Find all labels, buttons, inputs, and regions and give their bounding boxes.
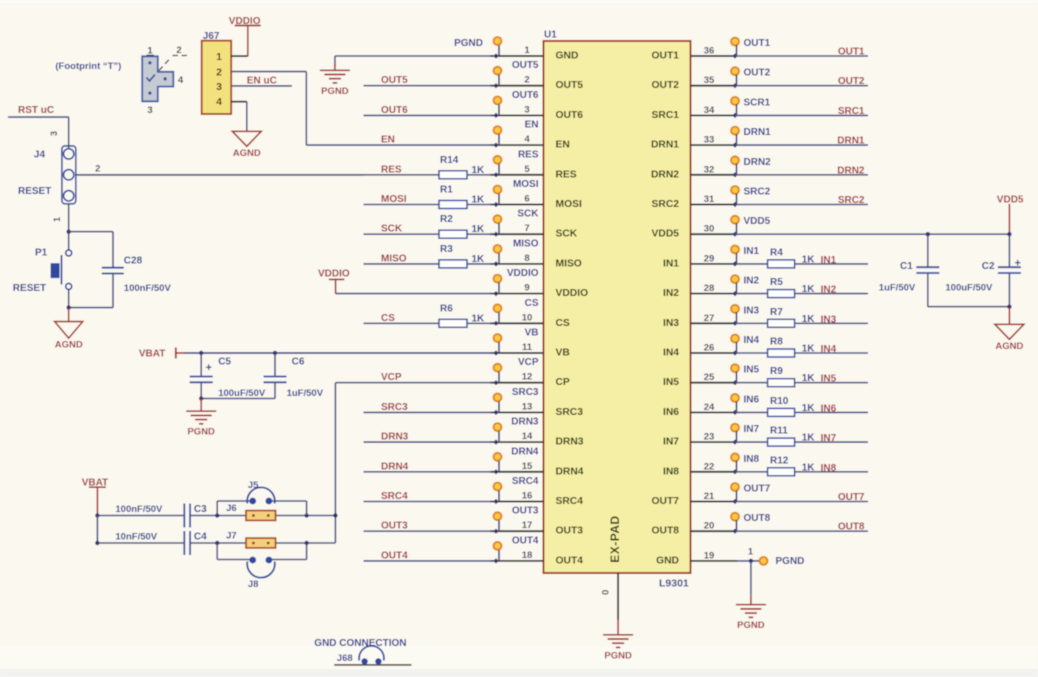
svg-text:DRN3: DRN3 [381,432,409,443]
svg-text:1K: 1K [802,284,816,295]
svg-text:SRC2: SRC2 [838,195,865,206]
svg-text:R10: R10 [770,396,789,407]
svg-text:1uF/50V: 1uF/50V [287,388,324,399]
svg-text:IN8: IN8 [821,463,837,474]
svg-text:VDD5: VDD5 [744,216,771,227]
svg-text:OUT7: OUT7 [652,496,680,507]
svg-text:IN8: IN8 [744,454,760,465]
svg-text:VDDIO: VDDIO [556,288,589,299]
svg-text:3: 3 [524,104,529,115]
svg-text:OUT1: OUT1 [744,38,771,49]
svg-text:PGND: PGND [737,620,765,631]
svg-text:1K: 1K [802,254,816,265]
svg-text:SCK: SCK [556,229,578,240]
svg-text:SRC2: SRC2 [744,187,771,198]
svg-text:AGND: AGND [233,148,261,159]
svg-text:CS: CS [556,318,570,329]
svg-text:IN4: IN4 [744,335,760,346]
svg-text:1K: 1K [802,403,816,414]
svg-text:J8: J8 [248,579,259,590]
svg-text:28: 28 [704,283,715,294]
svg-text:EN uC: EN uC [247,76,277,87]
svg-text:DRN3: DRN3 [556,437,584,448]
svg-text:PGND: PGND [321,86,349,97]
svg-text:+: + [206,362,212,374]
svg-text:21: 21 [704,491,715,502]
svg-text:100uF/50V: 100uF/50V [945,282,993,293]
svg-text:10: 10 [522,312,533,323]
svg-text:22: 22 [704,461,715,472]
svg-text:RES: RES [556,169,577,180]
svg-text:+: + [1015,258,1021,270]
svg-text:SRC4: SRC4 [381,491,408,502]
svg-text:1K: 1K [802,314,816,325]
svg-text:16: 16 [522,491,533,502]
svg-text:J6: J6 [226,503,237,514]
svg-text:DRN2: DRN2 [837,165,865,176]
svg-text:IN6: IN6 [663,407,679,418]
svg-text:L9301: L9301 [659,578,689,590]
svg-text:1K: 1K [472,165,486,176]
svg-text:5: 5 [524,164,530,175]
svg-text:R9: R9 [770,366,783,377]
svg-text:IN1: IN1 [744,246,760,257]
svg-text:CP: CP [556,377,570,388]
svg-text:SRC4: SRC4 [556,496,584,507]
svg-text:IN2: IN2 [663,288,679,299]
svg-text:RESET: RESET [13,283,46,294]
svg-text:1: 1 [216,51,222,63]
svg-text:DRN4: DRN4 [381,461,409,472]
svg-text:CS: CS [525,298,539,309]
svg-text:1K: 1K [802,344,816,355]
svg-text:SRC3: SRC3 [556,407,584,418]
svg-text:J5: J5 [248,480,259,491]
svg-text:IN4: IN4 [821,344,837,355]
svg-text:J7: J7 [226,531,237,542]
svg-text:R14: R14 [440,155,459,166]
svg-text:OUT8: OUT8 [652,526,680,537]
svg-text:C1: C1 [900,261,913,272]
svg-text:C3: C3 [194,504,207,515]
svg-text:IN6: IN6 [821,403,837,414]
svg-text:CS: CS [381,313,395,324]
svg-text:DRN1: DRN1 [837,136,865,147]
svg-text:OUT2: OUT2 [838,76,865,87]
svg-text:PGND: PGND [454,38,483,49]
svg-text:OUT5: OUT5 [512,60,539,71]
svg-text:7: 7 [524,223,529,234]
svg-text:25: 25 [704,372,715,383]
svg-text:DRN4: DRN4 [511,446,539,457]
svg-text:IN2: IN2 [821,285,837,296]
svg-text:15: 15 [522,461,533,472]
svg-text:24: 24 [704,402,715,413]
svg-text:U1: U1 [544,30,557,41]
svg-text:IN7: IN7 [744,424,760,435]
svg-text:SCR1: SCR1 [744,97,771,108]
svg-text:14: 14 [522,431,533,442]
svg-text:IN5: IN5 [663,377,679,388]
svg-text:GND CONNECTION: GND CONNECTION [314,638,406,649]
svg-text:R2: R2 [440,214,453,225]
svg-text:RES: RES [518,149,539,160]
svg-text:2: 2 [176,45,181,56]
svg-text:1: 1 [748,547,754,558]
svg-text:4: 4 [524,134,530,145]
svg-text:1K: 1K [802,462,816,473]
svg-text:VDDIO: VDDIO [318,269,350,280]
svg-text:33: 33 [704,135,715,146]
svg-text:OUT6: OUT6 [556,110,584,121]
svg-text:C28: C28 [124,256,143,267]
svg-text:MOSI: MOSI [556,199,582,210]
svg-text:OUT5: OUT5 [556,80,584,91]
svg-text:1K: 1K [472,224,486,235]
svg-text:EN: EN [381,135,395,146]
svg-text:OUT7: OUT7 [838,492,865,503]
svg-text:19: 19 [704,550,715,561]
svg-text:OUT3: OUT3 [556,526,584,537]
svg-text:1uF/50V: 1uF/50V [879,282,916,293]
svg-text:R7: R7 [770,307,783,318]
svg-text:OUT3: OUT3 [512,506,539,517]
svg-text:OUT4: OUT4 [556,555,584,566]
svg-text:C4: C4 [194,532,207,543]
svg-text:OUT1: OUT1 [838,47,865,58]
svg-text:VB: VB [556,348,570,359]
svg-text:18: 18 [522,550,533,561]
svg-text:27: 27 [704,313,715,324]
svg-text:OUT4: OUT4 [381,550,408,561]
svg-text:MOSI: MOSI [381,194,407,205]
svg-text:RESET: RESET [18,186,51,197]
svg-text:SRC3: SRC3 [512,387,539,398]
svg-text:4: 4 [178,75,184,86]
svg-text:R3: R3 [440,244,453,255]
svg-text:GND: GND [656,555,679,566]
svg-text:SCK: SCK [517,209,539,220]
svg-text:26: 26 [704,343,715,354]
svg-text:1K: 1K [802,433,816,444]
svg-text:OUT1: OUT1 [652,51,680,62]
svg-text:EN: EN [525,120,539,131]
svg-text:VDD5: VDD5 [997,195,1024,206]
svg-text:1: 1 [52,217,62,222]
svg-text:1K: 1K [472,195,486,206]
svg-text:VDD5: VDD5 [652,229,680,240]
svg-text:R1: R1 [440,185,453,196]
svg-text:DRN1: DRN1 [744,127,772,138]
svg-text:IN5: IN5 [744,365,760,376]
svg-text:OUT6: OUT6 [381,105,408,116]
svg-text:36: 36 [704,46,715,57]
svg-text:IN5: IN5 [821,374,837,385]
svg-text:SRC3: SRC3 [381,402,408,413]
svg-text:IN7: IN7 [663,437,679,448]
svg-text:IN3: IN3 [744,305,760,316]
svg-text:0: 0 [601,590,612,595]
svg-text:1K: 1K [472,313,486,324]
svg-text:13: 13 [522,401,533,412]
svg-text:OUT2: OUT2 [652,80,680,91]
svg-text:11: 11 [522,342,533,353]
svg-text:100nF/50V: 100nF/50V [115,504,163,515]
svg-text:DRN2: DRN2 [651,169,679,180]
svg-text:P1: P1 [35,248,48,259]
svg-text:MOSI: MOSI [513,179,539,190]
svg-text:R11: R11 [770,426,788,437]
svg-text:PGND: PGND [187,427,215,438]
svg-text:C5: C5 [218,357,231,368]
svg-text:3: 3 [216,81,222,93]
svg-text:OUT8: OUT8 [744,513,771,524]
svg-text:AGND: AGND [55,340,83,351]
svg-text:DRN4: DRN4 [556,466,584,477]
svg-text:VCP: VCP [381,372,402,383]
svg-text:OUT3: OUT3 [381,521,408,532]
svg-text:IN1: IN1 [663,258,679,269]
svg-text:IN7: IN7 [821,433,837,444]
svg-text:RES: RES [381,164,402,175]
svg-text:9: 9 [524,283,529,294]
svg-text:VB: VB [525,328,539,339]
svg-text:EN: EN [556,140,570,151]
svg-text:20: 20 [704,521,715,532]
svg-text:8: 8 [524,253,529,264]
svg-text:10nF/50V: 10nF/50V [115,532,157,543]
svg-text:VBAT: VBAT [139,349,165,360]
svg-text:AGND: AGND [995,341,1023,352]
svg-text:32: 32 [704,164,715,175]
svg-text:2: 2 [95,164,100,175]
svg-text:4: 4 [216,96,222,108]
svg-text:SRC4: SRC4 [512,476,539,487]
svg-text:R12: R12 [770,455,789,466]
svg-text:DRN1: DRN1 [651,140,679,151]
svg-text:12: 12 [522,372,533,383]
svg-text:100nF/50V: 100nF/50V [124,283,172,294]
svg-text:J68: J68 [337,653,353,664]
svg-text:29: 29 [704,253,715,264]
svg-text:2: 2 [524,75,529,86]
svg-text:OUT6: OUT6 [512,90,539,101]
svg-text:OUT2: OUT2 [744,68,771,79]
svg-text:100uF/50V: 100uF/50V [218,388,266,399]
svg-text:C2: C2 [982,261,995,272]
svg-text:IN8: IN8 [663,466,679,477]
svg-text:34: 34 [704,105,715,116]
svg-text:35: 35 [704,75,715,86]
svg-text:OUT8: OUT8 [838,522,865,533]
svg-text:DRN3: DRN3 [511,417,539,428]
svg-text:6: 6 [524,194,529,205]
svg-text:17: 17 [522,520,533,531]
svg-text:IN6: IN6 [744,394,760,405]
svg-text:1K: 1K [802,373,816,384]
svg-text:30: 30 [704,224,715,235]
svg-text:MISO: MISO [556,258,582,269]
svg-text:(Footprint “T”): (Footprint “T”) [55,61,121,72]
svg-text:VCP: VCP [518,357,539,368]
svg-text:31: 31 [704,194,715,205]
svg-text:PGND: PGND [604,650,632,661]
svg-text:R8: R8 [770,337,783,348]
svg-text:MISO: MISO [513,238,539,249]
svg-text:IN1: IN1 [821,255,837,266]
svg-text:SRC2: SRC2 [652,199,680,210]
svg-text:J4: J4 [34,150,46,161]
svg-text:OUT7: OUT7 [744,484,771,495]
svg-text:IN3: IN3 [663,318,679,329]
svg-text:3: 3 [49,131,59,136]
svg-text:SRC1: SRC1 [838,106,865,117]
svg-text:1: 1 [524,45,530,56]
svg-text:3: 3 [147,105,152,116]
svg-text:SCK: SCK [381,224,403,235]
svg-text:MISO: MISO [381,253,407,264]
svg-text:2: 2 [216,66,222,78]
svg-text:RST uC: RST uC [18,105,54,116]
svg-text:SRC1: SRC1 [652,110,680,121]
svg-text:OUT4: OUT4 [512,535,539,546]
svg-text:VDDIO: VDDIO [507,268,539,279]
svg-text:C6: C6 [292,357,305,368]
svg-text:IN4: IN4 [663,348,679,359]
svg-text:EX-PAD: EX-PAD [608,515,622,562]
svg-text:23: 23 [704,432,715,443]
svg-text:PGND: PGND [776,556,805,567]
svg-text:IN2: IN2 [744,276,760,287]
svg-text:R4: R4 [770,247,783,258]
svg-text:1K: 1K [472,254,486,265]
svg-text:OUT5: OUT5 [381,75,408,86]
svg-text:R5: R5 [770,277,783,288]
svg-text:GND: GND [556,51,579,62]
svg-text:IN3: IN3 [821,314,837,325]
svg-text:DRN2: DRN2 [744,157,772,168]
svg-text:R6: R6 [440,303,453,314]
